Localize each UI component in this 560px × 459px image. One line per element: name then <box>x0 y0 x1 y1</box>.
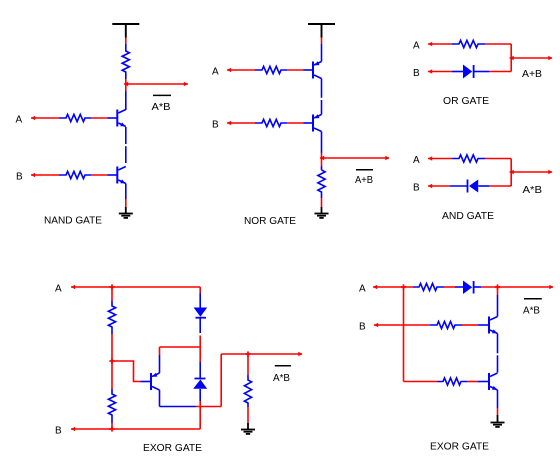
lead from D4 <box>199 389 201 401</box>
svg-text:A: A <box>212 67 219 78</box>
svg-text:A: A <box>359 284 366 295</box>
lead to diode D3 <box>199 293 201 308</box>
wire D1 to junction (OR) <box>489 71 511 73</box>
wire to Q3 emitter <box>321 44 323 62</box>
wire base node down to R4 <box>111 361 113 389</box>
svg-text:A+B: A+B <box>522 69 542 80</box>
svg-text:A: A <box>413 41 420 52</box>
wire collector rail right (blue part) <box>160 406 197 408</box>
overline for A+B label (NOR) <box>356 169 373 171</box>
svg-text:A: A <box>55 284 62 295</box>
wire A branch to bottom resistor <box>404 381 438 383</box>
resistor RA (EXOR2 top) <box>413 283 444 290</box>
ground (NOR) <box>315 214 329 218</box>
lead to diode D1 (OR) <box>452 71 463 73</box>
output wire A+B (OR) <box>510 57 553 59</box>
wire R2 to ground <box>321 198 323 207</box>
wire D4 to bottom rail <box>199 401 201 407</box>
lead from D2 <box>478 185 489 187</box>
wire RA to junction (OR) <box>485 43 511 45</box>
lead from D5 <box>475 286 482 288</box>
overline for A*B label (EXOR2) <box>524 298 542 300</box>
diode D1 (OR, input B) <box>463 65 474 79</box>
resistor RA (AND) <box>452 155 485 162</box>
base lead Q6 <box>478 324 489 326</box>
node output junction (EXOR2) <box>495 284 500 289</box>
wire input A (AND) <box>428 158 452 160</box>
base lead Q4 <box>304 122 313 124</box>
diode D4 (EXOR1 bottom, pointing up) <box>193 379 207 389</box>
resistor R4 (EXOR1 lower left) <box>108 389 115 423</box>
node A junction (EXOR2) <box>401 284 406 289</box>
svg-text:A*B: A*B <box>152 102 171 113</box>
wire RB to Q2 base <box>91 174 108 176</box>
base lead Q3 <box>304 69 313 71</box>
wire A rail corner down to D3 (EXOR1) <box>199 287 201 293</box>
svg-text:EXOR GATE: EXOR GATE <box>143 443 202 454</box>
svg-text:B: B <box>413 68 420 79</box>
wire base node to Q5 base <box>112 361 141 382</box>
wire A node down to R3 <box>111 287 113 301</box>
resistor R5 (EXOR1 output pull-down) <box>244 375 251 407</box>
wire R1 to collector node <box>125 79 127 91</box>
base lead Q1 <box>108 117 118 119</box>
wire Q1 emitter to Q2 collector <box>125 127 127 144</box>
svg-text:A*B: A*B <box>523 306 540 317</box>
transistor Q6 (EXOR2 upper) (NPN) <box>489 317 498 334</box>
transistor Q2 (NAND, input B) (NPN) <box>117 167 126 184</box>
svg-text:B: B <box>413 183 420 194</box>
wire RA to D5 <box>444 286 455 288</box>
wire input B (EXOR2) <box>374 324 430 326</box>
wire input A (EXOR2) <box>373 286 413 288</box>
lead to diode D2 (AND) <box>450 185 467 187</box>
wire R4 to B rail <box>111 423 113 429</box>
wire Q5 emitter up <box>159 355 161 373</box>
node output-R5 junction <box>245 351 250 356</box>
wire RC to Q7 base <box>467 381 478 383</box>
base lead Q2 <box>108 174 118 176</box>
node A-R3 junction <box>109 284 114 289</box>
output wire A*B (AND) <box>510 171 553 173</box>
wire input B (OR) <box>428 71 452 73</box>
wire RA to junction (AND) <box>485 158 511 160</box>
lead from D1 <box>475 71 490 73</box>
wire to Q4 base <box>287 122 304 124</box>
output wire A*B (EXOR1) <box>221 353 302 355</box>
output wire A*B (NAND) <box>124 83 188 85</box>
svg-text:B: B <box>359 322 366 333</box>
lead to diode D4 <box>199 362 201 378</box>
wire A branch riser (EXOR2) <box>403 287 405 382</box>
diode D2 (AND, input B, pointing left) <box>468 180 479 193</box>
svg-text:A: A <box>16 115 23 126</box>
svg-text:B: B <box>16 172 23 183</box>
wire Q6 emitter to Q7 collector <box>497 334 499 354</box>
svg-text:A: A <box>413 155 420 166</box>
wire output node down to Q6 collector <box>497 287 499 295</box>
wire input A rail (EXOR1) <box>71 286 200 288</box>
wire D3 to mid node <box>199 336 201 363</box>
resistor RB (EXOR2 middle) <box>430 321 462 328</box>
lead to diode D5 <box>455 286 463 288</box>
overline for A*B label (EXOR1) <box>275 365 291 367</box>
wire output node down to R5 <box>247 354 249 375</box>
svg-text:NOR GATE: NOR GATE <box>244 216 296 227</box>
wire RA to Q1 base <box>91 117 108 119</box>
base lead Q7 <box>478 381 489 383</box>
resistor R2 (NOR pull-down) <box>321 166 323 170</box>
svg-text:A+B: A+B <box>355 175 373 186</box>
overline for A*B label (NAND) <box>153 94 171 96</box>
svg-text:B: B <box>212 120 219 131</box>
wire input A (NAND) <box>31 117 59 119</box>
wire input B (NAND) <box>31 174 59 176</box>
wire R5 to ground <box>247 407 249 423</box>
wire emitter rail to diode node <box>160 346 201 348</box>
wire Q7 emitter to ground <box>497 390 499 408</box>
node R4-B junction <box>109 426 114 431</box>
wire input B rail (EXOR1) <box>71 428 200 430</box>
wire Q5 collector down <box>159 390 161 407</box>
diode D5 (EXOR2, pointing right) <box>463 281 474 295</box>
svg-text:EXOR GATE: EXOR GATE <box>430 441 489 452</box>
resistor RA (NOR input A) <box>255 66 287 73</box>
transistor Q7 (EXOR2 lower) (NPN) <box>489 373 498 390</box>
power rail VCC (NAND) <box>112 24 139 38</box>
resistor RA (OR) <box>452 40 485 47</box>
transistor Q1 (NAND, input A) (NPN) <box>117 110 126 127</box>
transistor Q5 (EXOR1) (PNP) <box>151 373 160 390</box>
resistor R1 (NAND pull-up) <box>122 44 129 79</box>
svg-text:OR GATE: OR GATE <box>443 96 489 107</box>
wire to Q3 base <box>287 69 304 71</box>
wire input B (AND) <box>428 185 450 187</box>
svg-text:B: B <box>55 426 62 437</box>
ground (EXOR2) <box>491 423 505 427</box>
resistor RC (EXOR2 bottom) <box>437 378 467 385</box>
ground (NAND) <box>119 214 133 218</box>
output wire A+B (NOR) <box>320 157 389 159</box>
wire RB to Q6 base <box>462 324 478 326</box>
wire R3 to base node <box>111 334 113 361</box>
base lead Q5 <box>141 381 151 383</box>
resistor RB (NAND input B) <box>59 171 91 178</box>
wire VCC to R1 <box>125 38 127 45</box>
wire input B (NOR) <box>227 122 255 124</box>
wire output riser (EXOR1) <box>220 354 222 407</box>
output wire A*B (EXOR2) <box>481 286 553 288</box>
node base junction (EXOR1) <box>109 358 114 363</box>
diode D3 (EXOR1 top, pointing down) <box>194 308 208 318</box>
transistor Q3 (NOR, input A) (PNP) <box>313 61 322 78</box>
resistor R3 (EXOR1 upper left) <box>108 301 115 334</box>
svg-text:AND GATE: AND GATE <box>442 211 494 222</box>
ground (EXOR1) <box>241 430 255 434</box>
wire Q4 collector to output node <box>321 132 323 154</box>
transistor Q4 (NOR, input B) (PNP) <box>313 114 322 131</box>
wire A branch down (OR) <box>510 44 512 72</box>
wire input A (OR) <box>428 43 452 45</box>
resistor RB (NOR input B) <box>255 119 287 126</box>
wire A branch down (AND) <box>510 159 512 187</box>
power rail VCC (NOR) <box>308 24 335 38</box>
svg-text:NAND GATE: NAND GATE <box>44 215 102 226</box>
wire bottom rail down to B rail <box>199 407 201 430</box>
wire input A (NOR) <box>227 69 255 71</box>
wire D2 to junction (AND) <box>489 185 511 187</box>
wire VCC down (NOR) <box>321 38 323 45</box>
svg-text:A*B: A*B <box>523 185 543 196</box>
resistor RA (NAND input A) <box>59 114 91 121</box>
lead from D3 <box>199 318 201 333</box>
wire Q3 collector to Q4 emitter <box>321 79 323 98</box>
wire collector node down to Q1 <box>125 91 127 110</box>
wire collector rail right (red part) <box>196 406 221 408</box>
wire Q2 emitter to ground <box>125 184 127 200</box>
svg-text:A*B: A*B <box>273 373 290 384</box>
